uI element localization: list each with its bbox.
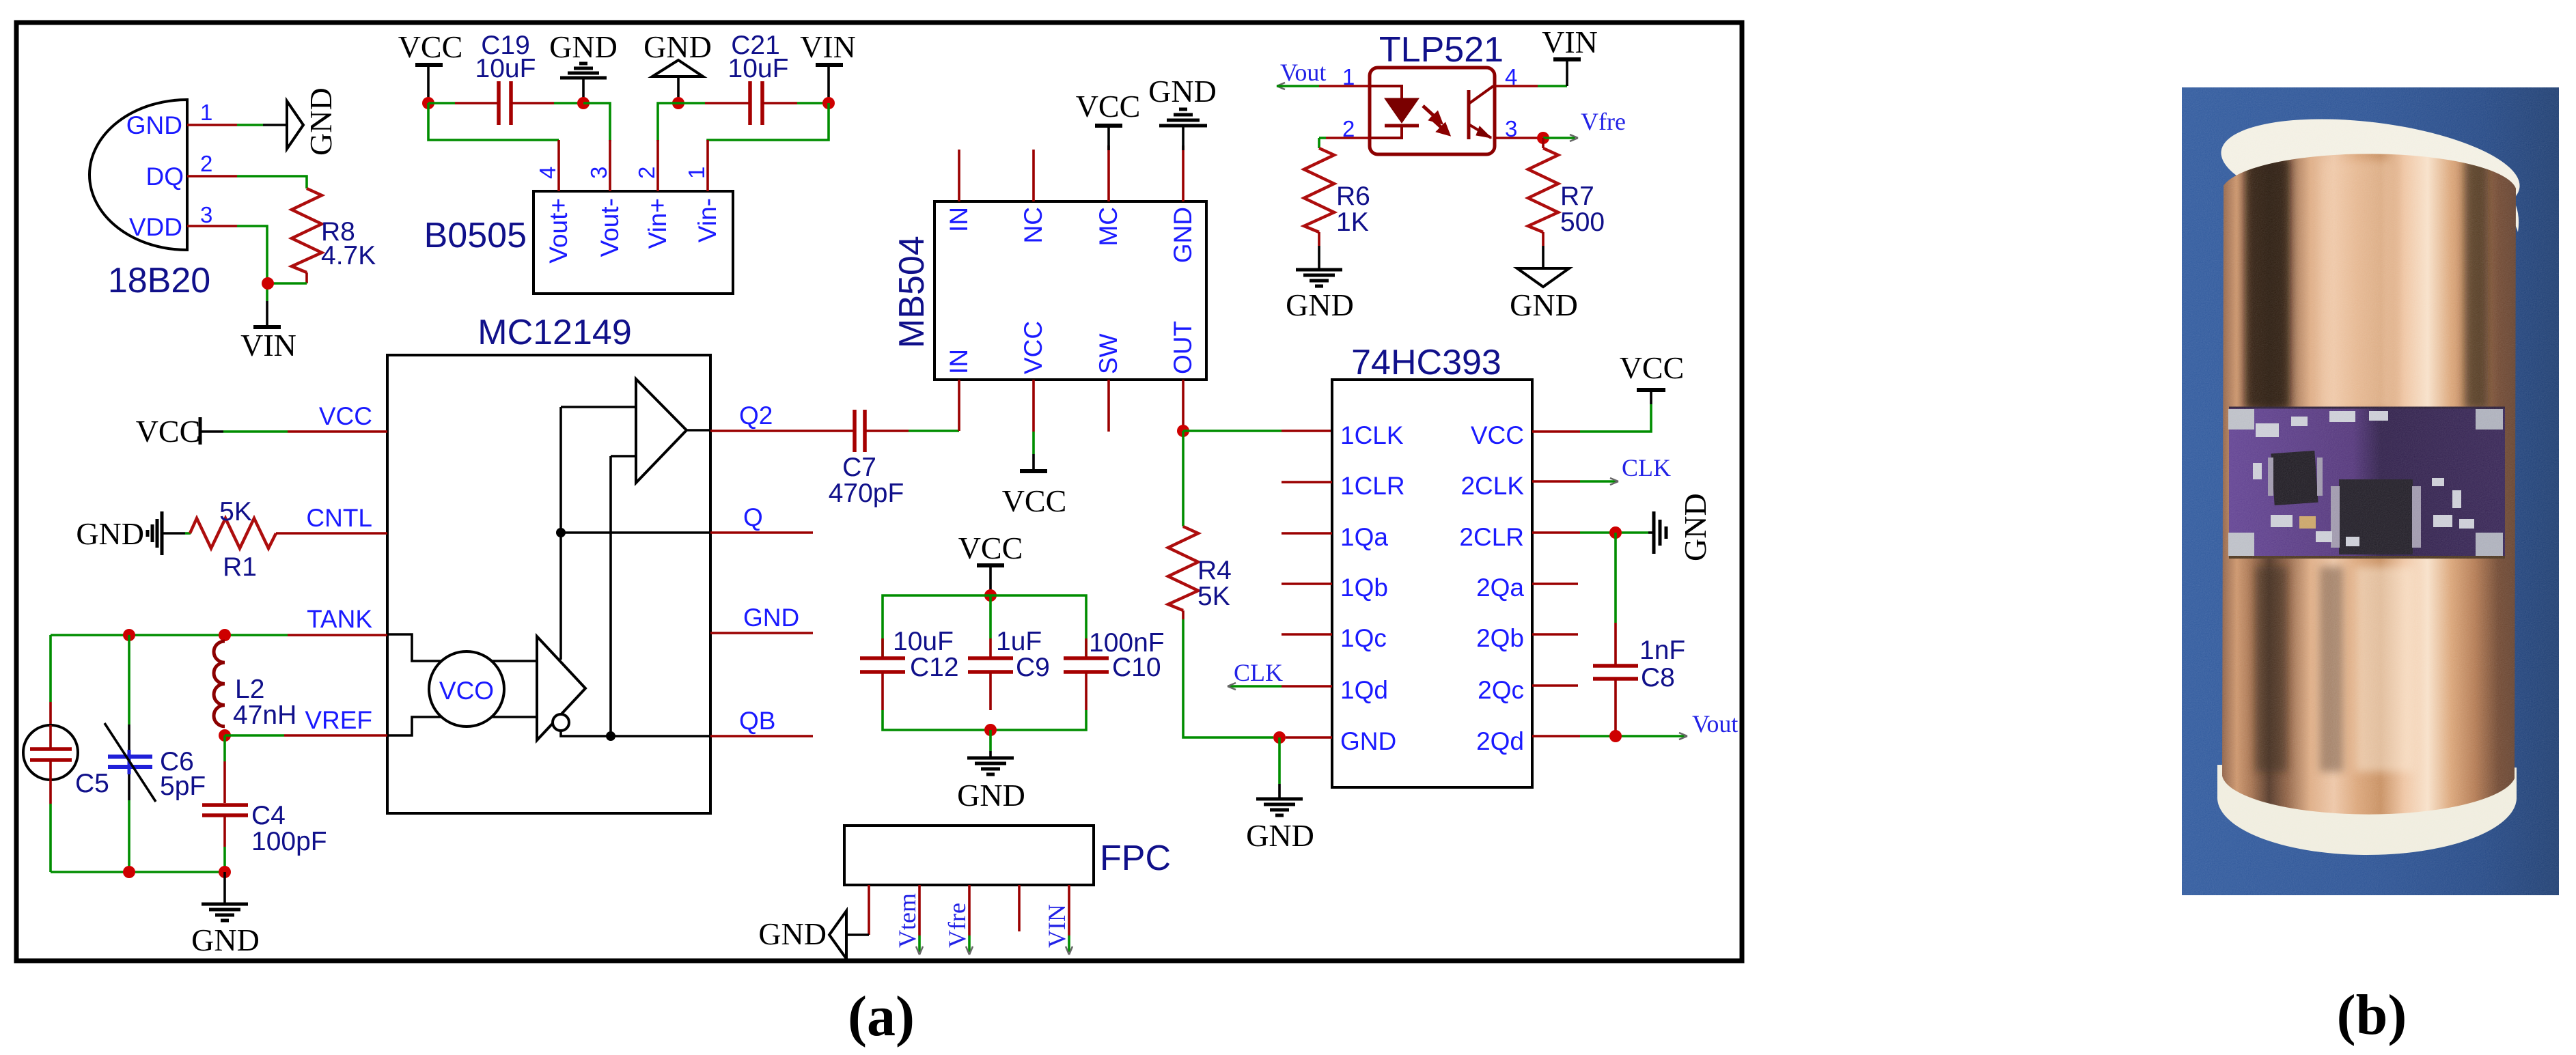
node Q feedback junction <box>556 528 566 537</box>
svg-text:VIN: VIN <box>800 29 856 64</box>
copper bright highlight bottom <box>2355 567 2414 772</box>
MB504 top pin NC stub <box>1032 150 1035 201</box>
node VCC cap rail <box>984 589 997 602</box>
svg-text:1: 1 <box>684 167 709 179</box>
svg-text:R1: R1 <box>223 552 257 582</box>
copper sheen highlight top <box>2321 160 2393 410</box>
ground port GND (left of R1) <box>76 511 191 555</box>
power port VCC (MC12149 left) <box>136 414 387 449</box>
net label CLK (1Qd) <box>1228 659 1332 690</box>
wire R8 bottom to VDD node <box>268 282 307 285</box>
PCB chip U1 <box>2268 451 2323 505</box>
svg-text:Vout: Vout <box>1692 710 1738 737</box>
ground GND (caps) <box>957 730 1025 813</box>
svg-text:VCC: VCC <box>958 531 1023 565</box>
VCO circle <box>429 651 504 727</box>
FPC pin 1 stub <box>868 885 870 935</box>
svg-text:10uF: 10uF <box>475 54 536 83</box>
svg-text:470pF: 470pF <box>829 479 904 508</box>
svg-text:Vout-: Vout- <box>596 198 624 257</box>
svg-text:74HC393: 74HC393 <box>1351 343 1501 382</box>
svg-text:GND: GND <box>1678 493 1713 561</box>
copper dark streak top left <box>2245 157 2290 410</box>
svg-text:VCC: VCC <box>398 29 463 64</box>
MB504 top pin GND stub <box>1182 145 1185 201</box>
svg-text:L2: L2 <box>235 675 264 704</box>
svg-text:(a): (a) <box>848 985 915 1048</box>
svg-text:4: 4 <box>1505 64 1517 89</box>
svg-text:R7: R7 <box>1560 182 1594 211</box>
svg-text:2Qc: 2Qc <box>1478 676 1524 704</box>
power port VCC (above MB504 MC) <box>1076 89 1141 150</box>
ground GND (above MB504 GND pin, earth inverted) <box>1148 74 1217 150</box>
wire C5 branch lower <box>49 804 52 872</box>
svg-text:18B20: 18B20 <box>108 261 210 300</box>
wire feedback upper input <box>561 406 636 408</box>
node C19-GND junction <box>577 97 590 109</box>
svg-text:VIN: VIN <box>1043 904 1070 948</box>
wire 2CLR to GND <box>1532 531 1648 534</box>
svg-text:OUT: OUT <box>1169 321 1197 374</box>
ground GND (74HC393) <box>1246 737 1314 853</box>
node 2CLR junction <box>1609 526 1622 539</box>
svg-text:1: 1 <box>1342 64 1355 89</box>
capacitor C8 1nF <box>1593 636 1685 736</box>
svg-text:B0505: B0505 <box>424 216 527 255</box>
PCB chip U2 <box>2331 479 2421 554</box>
svg-text:1K: 1K <box>1336 208 1369 237</box>
svg-text:VREF: VREF <box>305 706 372 734</box>
svg-text:Vfre: Vfre <box>943 903 971 948</box>
node QB junction <box>606 731 615 741</box>
svg-text:SW: SW <box>1094 333 1122 374</box>
node VIN-C21 junction <box>822 97 835 109</box>
svg-text:5pF: 5pF <box>160 772 206 801</box>
schematic frame <box>16 23 1742 961</box>
svg-text:500: 500 <box>1560 208 1605 237</box>
MC12149 QB pin stub <box>710 735 813 737</box>
svg-text:GND: GND <box>126 111 182 139</box>
B0505 DC-DC converter <box>424 191 733 294</box>
FPC pin 2 (Vtem) <box>894 885 923 955</box>
node VCC-C19 junction <box>422 97 434 109</box>
MB504 top pin MC stub <box>1107 145 1110 201</box>
node VREF-L2 junction <box>219 729 231 742</box>
capacitor C21 <box>728 31 789 125</box>
MB504 bottom pin SW stub <box>1107 380 1110 432</box>
TLP521 phototransistor <box>1469 86 1493 139</box>
svg-text:4.7K: 4.7K <box>321 241 376 270</box>
ground GND (tank) <box>191 872 260 957</box>
svg-text:Q: Q <box>743 503 763 531</box>
svg-text:CLK: CLK <box>1622 454 1671 481</box>
node OUT junction <box>1177 425 1189 437</box>
FPC pin 5 (VIN) <box>1043 885 1072 955</box>
svg-text:1Qd: 1Qd <box>1340 676 1388 704</box>
wire L2 to C4 <box>223 735 226 803</box>
wire VREF rail <box>225 734 387 737</box>
svg-text:C12: C12 <box>910 653 959 682</box>
PCB small passive components <box>2253 411 2474 546</box>
copper dark streak bottom left <box>2256 567 2287 772</box>
svg-text:GND: GND <box>1510 287 1578 322</box>
svg-text:VIN: VIN <box>1542 25 1598 59</box>
wire 18B20 pin3 to VIN <box>187 226 267 301</box>
wire vertical Q feedback <box>559 407 562 660</box>
svg-text:5K: 5K <box>219 497 252 526</box>
svg-text:VCC: VCC <box>1002 483 1067 518</box>
optocoupler TLP521 box <box>1370 30 1504 154</box>
TLP521 light arrows <box>1423 106 1448 134</box>
TLP521 pin 4 wire to VIN <box>1495 85 1567 87</box>
wire VREF inner step <box>387 717 537 735</box>
svg-text:GND: GND <box>1169 207 1197 263</box>
B0505 pin 3 stub <box>609 140 611 191</box>
TLP521 pin 3 wire <box>1495 137 1538 139</box>
svg-text:1Qc: 1Qc <box>1340 624 1387 652</box>
wire C21 to VIN node <box>762 102 829 104</box>
wire C6 branch lower <box>128 774 130 872</box>
wire vertical QB feedback <box>609 456 612 736</box>
node VDD junction <box>262 277 274 290</box>
copper dark streak right top <box>2465 157 2488 410</box>
node GND-C21 junction <box>672 97 684 109</box>
svg-text:Vin-: Vin- <box>693 198 721 242</box>
svg-text:GND: GND <box>1148 74 1217 109</box>
MB504 bottom pin IN stub <box>958 380 960 431</box>
wire C5 branch upper <box>49 635 52 744</box>
op-amp/PLL MC12149 box <box>387 313 710 813</box>
PCB corner pad top-right <box>2476 409 2503 430</box>
photo (b): sensor coil on blue cloth <box>2182 87 2559 1047</box>
svg-text:3: 3 <box>586 167 611 179</box>
capacitor C19 <box>475 31 536 125</box>
wire 18B20 pin1 to GND port <box>187 124 287 126</box>
svg-text:1CLR: 1CLR <box>1340 472 1405 500</box>
74HC393 2Qa stub <box>1532 582 1578 585</box>
capacitor C6 5pF (variable) <box>105 723 206 802</box>
svg-text:R4: R4 <box>1197 556 1232 585</box>
TLP521 pin 2 wire <box>1319 138 1370 148</box>
MB504 bottom pin OUT stub <box>1182 380 1185 430</box>
resistor R6 1K <box>1304 148 1370 246</box>
top white end cap rim <box>2215 104 2525 235</box>
svg-text:Vout: Vout <box>1280 59 1326 86</box>
MB504 bottom pin VCC stub <box>1032 380 1035 454</box>
frequency divider MB504 box <box>892 201 1206 380</box>
MB504 top pin IN stub <box>958 150 960 201</box>
power port VCC (decoupling caps) <box>958 531 1023 590</box>
svg-text:2: 2 <box>200 151 212 176</box>
node TANK-L2 junction <box>219 629 231 641</box>
PCB corner pad top-left <box>2228 409 2254 430</box>
wire GND node to B0505 pin2 <box>658 103 678 141</box>
svg-text:GND: GND <box>303 87 338 156</box>
node bottom rail C6 <box>123 866 135 878</box>
B0505 pin 1 stub <box>706 140 709 191</box>
svg-text:1Qb: 1Qb <box>1340 574 1388 602</box>
svg-text:5K: 5K <box>1197 582 1230 611</box>
wire VCC node down to B0505 pin4 <box>428 103 559 140</box>
svg-text:VCC: VCC <box>1019 321 1047 374</box>
wire C6 branch upper <box>128 635 130 750</box>
svg-text:47nH: 47nH <box>233 701 296 730</box>
node GND cap rail <box>984 724 997 736</box>
wire Q line <box>561 531 710 534</box>
power port VCC (below MB504, inverted) <box>1002 454 1067 518</box>
resistor R4 5K <box>1168 526 1232 619</box>
capacitor C12 10uF <box>860 627 959 710</box>
svg-text:VCC: VCC <box>319 402 372 430</box>
svg-text:GND: GND <box>1246 818 1314 853</box>
svg-text:MC12149: MC12149 <box>477 313 631 352</box>
net label CLK (2CLK) <box>1532 454 1671 485</box>
svg-text:GND: GND <box>191 923 260 957</box>
svg-text:C7: C7 <box>842 453 876 482</box>
svg-text:C9: C9 <box>1016 653 1050 682</box>
svg-text:TANK: TANK <box>307 605 372 633</box>
svg-text:VCC: VCC <box>1620 350 1685 385</box>
svg-text:2: 2 <box>1342 116 1355 141</box>
svg-text:GND: GND <box>1286 287 1354 322</box>
wire cap top rail <box>883 595 1086 658</box>
wire C19 to GND node <box>511 102 583 104</box>
B0505 pin 2 stub <box>656 140 659 191</box>
inverter triangle (VCO output) <box>537 636 585 740</box>
74HC393 2Qc stub <box>1532 684 1578 687</box>
wire TANK inner step <box>387 634 537 661</box>
svg-text:VCC: VCC <box>1471 421 1524 449</box>
svg-text:2Qd: 2Qd <box>1476 727 1524 755</box>
B0505 pin 4 stub <box>557 140 560 191</box>
svg-text:IN: IN <box>945 349 973 374</box>
svg-text:QB: QB <box>739 707 775 735</box>
resistor R8 <box>292 188 376 283</box>
net label Vfre wire <box>1543 108 1626 141</box>
ground port GND (right arrow) <box>287 87 338 156</box>
svg-text:1Qa: 1Qa <box>1340 523 1388 551</box>
svg-text:3: 3 <box>200 202 212 227</box>
MC12149 GND pin stub <box>710 632 813 634</box>
svg-text:3: 3 <box>1505 116 1517 141</box>
wire Q2 to C7 <box>710 430 855 432</box>
svg-text:CNTL: CNTL <box>306 504 372 532</box>
PCB tan component <box>2299 516 2316 529</box>
wire 74HC393 VCC pin <box>1532 404 1651 432</box>
capacitor C10 100nF <box>1064 628 1165 710</box>
wire feedback lower input <box>611 455 636 458</box>
node bottom rail C4 <box>219 866 231 878</box>
svg-text:GND: GND <box>549 29 618 64</box>
svg-text:1nF: 1nF <box>1639 636 1685 665</box>
power port VIN (TLP521) <box>1542 25 1598 86</box>
wire GND node to C21 <box>678 102 750 104</box>
wire VCC node to C19 <box>428 102 499 104</box>
node pin3-R7 junction <box>1537 132 1549 144</box>
PCB corner pad bottom-right <box>2476 533 2503 556</box>
wire QB line <box>561 731 710 736</box>
TLP521 LED <box>1370 86 1419 138</box>
ground port GND (FPC, left arrow) <box>758 911 846 959</box>
74HC393 1Qa stub <box>1282 532 1332 535</box>
wire VIN node down to B0505 pin1 <box>708 103 829 141</box>
FPC pin 3 (Vfre) <box>943 885 973 955</box>
74HC393 1Qc stub <box>1282 633 1332 636</box>
binary counter 74HC393 box <box>1332 343 1532 787</box>
svg-text:GND: GND <box>957 778 1025 813</box>
svg-text:Vout+: Vout+ <box>544 198 572 264</box>
FPC pin 4 stub <box>1018 885 1021 931</box>
svg-text:IN: IN <box>945 207 973 232</box>
wire GND node down to B0505 pin3 <box>583 103 610 141</box>
svg-text:Vin+: Vin+ <box>643 198 671 249</box>
capacitor C9 1uF <box>968 595 1050 710</box>
svg-text:C8: C8 <box>1641 663 1675 692</box>
svg-text:DQ: DQ <box>146 163 184 191</box>
resistor R1 5K <box>190 497 276 582</box>
wire buffer output to Q2 pin <box>687 429 710 432</box>
svg-text:CLK: CLK <box>1234 659 1283 686</box>
wire C7 to MB504 IN <box>865 430 959 432</box>
wire TANK rail <box>51 634 387 636</box>
svg-text:NC: NC <box>1019 207 1047 243</box>
svg-text:GND: GND <box>758 916 827 951</box>
power port VIN (top) <box>800 29 856 98</box>
ground symbol GND (earth, above wire) <box>549 29 618 98</box>
74HC393 GND pin wire <box>1286 736 1332 739</box>
svg-text:TLP521: TLP521 <box>1379 30 1504 70</box>
ground symbol GND (triangle, above wire) <box>643 29 712 98</box>
svg-text:1uF: 1uF <box>996 627 1042 656</box>
power port VIN (18B20) <box>240 301 296 363</box>
bottom white end cap <box>2217 765 2517 855</box>
TLP521 pin 1 wire (Vout) <box>1277 83 1370 89</box>
node TANK-C6 junction <box>123 629 135 641</box>
wire R4 bottom to GND rail <box>1183 619 1273 737</box>
ground GND (R6) <box>1286 246 1354 322</box>
wire 2Qd to Vout <box>1532 733 1687 740</box>
connector FPC box <box>844 826 1171 885</box>
svg-text:10uF: 10uF <box>893 627 954 656</box>
svg-text:10uF: 10uF <box>728 54 789 83</box>
wire R1 to CNTL pin <box>276 532 387 535</box>
74HC393 2Qb stub <box>1532 633 1578 636</box>
inductor L2 47nH <box>214 641 296 730</box>
svg-text:1: 1 <box>200 100 212 125</box>
power port VCC (top left of B0505) <box>398 29 463 98</box>
svg-text:C5: C5 <box>75 769 109 798</box>
inverter bubble <box>553 714 569 731</box>
svg-text:VCC: VCC <box>1076 89 1141 124</box>
capacitor C7 470pF <box>829 410 904 508</box>
svg-text:GND: GND <box>76 516 144 551</box>
capacitor C5 (trimmer in circle) <box>23 725 109 804</box>
power port VCC (74HC393) <box>1620 350 1685 404</box>
svg-text:Vfre: Vfre <box>1581 108 1626 135</box>
svg-text:GND: GND <box>743 604 799 632</box>
temperature sensor 18B20 body <box>89 100 210 300</box>
resistor R7 500 <box>1528 138 1605 246</box>
wire OUT node down to R4 <box>1182 431 1185 526</box>
svg-text:GND: GND <box>1340 727 1396 755</box>
svg-text:VCC: VCC <box>136 414 201 449</box>
wire FPC pin1 to GND port <box>846 933 869 936</box>
74HC393 1CLR stub <box>1282 481 1332 483</box>
74HC393 1Qb stub <box>1282 582 1332 585</box>
node 2Qd-C8 junction <box>1609 730 1622 742</box>
svg-text:VDD: VDD <box>129 213 182 241</box>
svg-text:2Qa: 2Qa <box>1476 574 1524 602</box>
svg-text:1CLK: 1CLK <box>1340 421 1404 449</box>
svg-text:2: 2 <box>634 167 659 179</box>
wire bottom tank rail <box>51 871 225 873</box>
svg-text:MB504: MB504 <box>892 236 932 348</box>
ground GND (R7, triangle down) <box>1510 246 1578 322</box>
svg-text:C4: C4 <box>251 801 286 830</box>
PCB corner pad bottom-left <box>2228 533 2254 556</box>
ground GND (2CLR, chassis rotated) <box>1648 493 1713 561</box>
svg-text:C10: C10 <box>1112 653 1161 682</box>
capacitor C4 100pF <box>202 801 327 872</box>
svg-text:4: 4 <box>535 167 560 179</box>
svg-text:2CLK: 2CLK <box>1460 472 1524 500</box>
svg-text:Vtem: Vtem <box>894 893 921 948</box>
svg-text:VIN: VIN <box>240 328 296 363</box>
wire 2CLR node down to C8 <box>1614 533 1617 665</box>
PCB band <box>2229 408 2505 557</box>
svg-text:R6: R6 <box>1336 182 1370 211</box>
svg-text:2CLR: 2CLR <box>1459 523 1524 551</box>
MC12149 Q pin stub <box>710 531 813 534</box>
wire cap bottom rail <box>883 710 1086 730</box>
svg-text:(b): (b) <box>2337 983 2407 1047</box>
wire 18B20 pin2 to R8 <box>187 176 307 188</box>
svg-text:100pF: 100pF <box>251 827 327 856</box>
svg-text:VCO: VCO <box>439 677 494 705</box>
wire OUT node to 1CLK <box>1183 430 1332 432</box>
node GND rail 74HC393 <box>1273 731 1286 744</box>
svg-text:MC: MC <box>1094 207 1122 247</box>
svg-text:2Qb: 2Qb <box>1476 624 1524 652</box>
svg-text:FPC: FPC <box>1100 839 1171 878</box>
svg-text:Q2: Q2 <box>739 402 773 430</box>
buffer amplifier (inside MC12149) <box>636 379 687 483</box>
copper coil body <box>2222 154 2516 814</box>
